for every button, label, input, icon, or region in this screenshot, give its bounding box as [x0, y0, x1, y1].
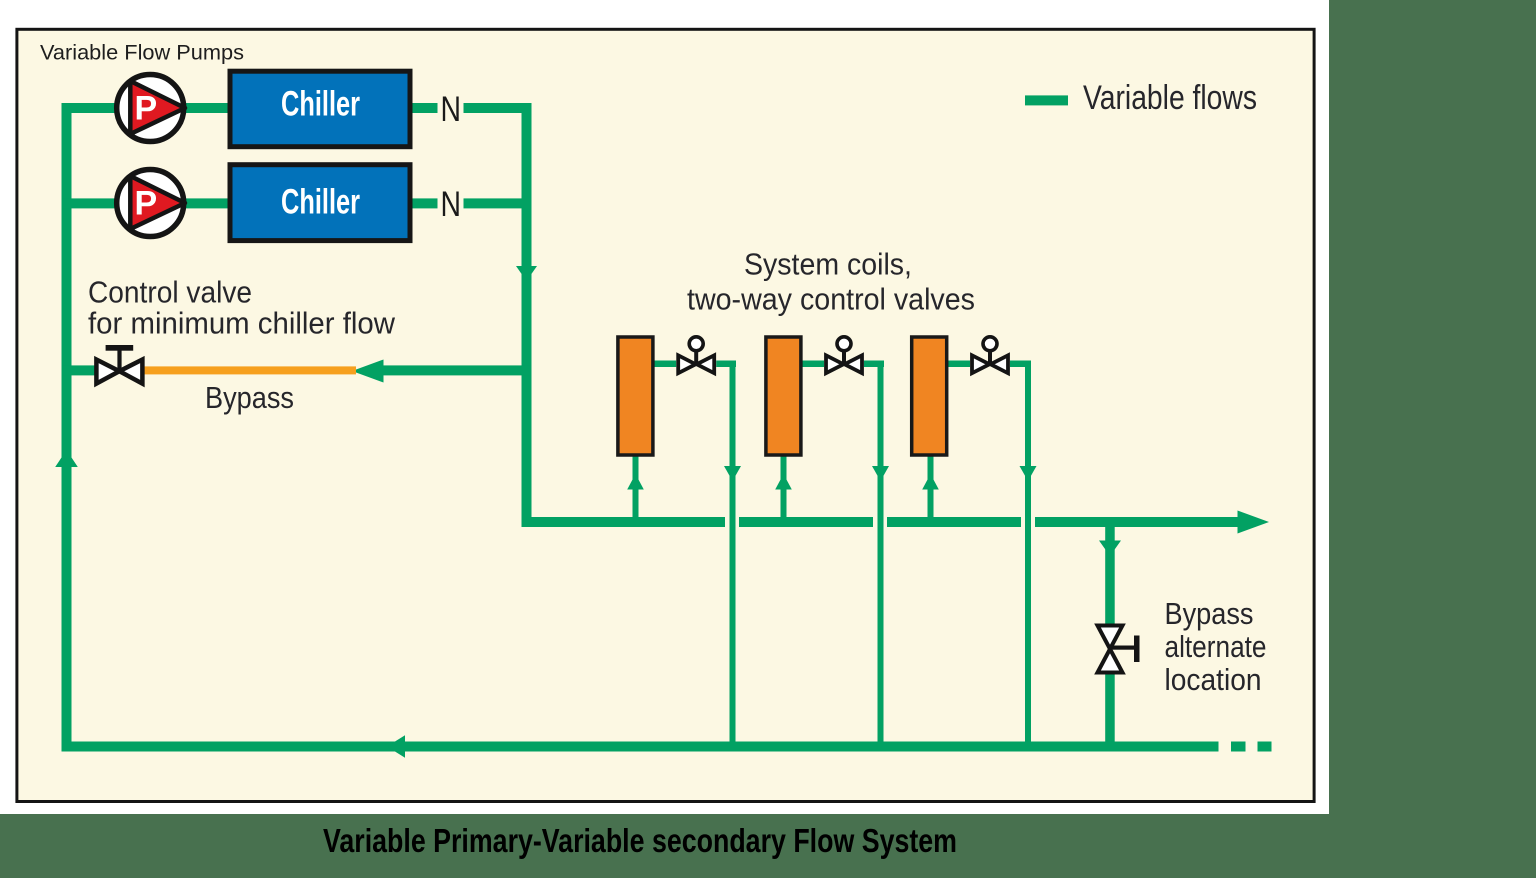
- diagram panel: [17, 29, 1314, 801]
- arrow: left riser up: [55, 450, 78, 467]
- coil 1: [618, 337, 653, 455]
- chiller 1: [230, 71, 410, 147]
- wire: return dash 1: [1231, 742, 1246, 752]
- wire: row2 after check valve: [462, 198, 532, 208]
- wire: supply manifold seg1: [522, 517, 726, 527]
- svg-text:Variable Primary-Variable seco: Variable Primary-Variable secondary Flow…: [323, 822, 957, 859]
- check valve N row 2: [438, 185, 464, 224]
- label: Bypass alternate location: [1165, 596, 1267, 697]
- wire: row1 chiller outlet: [411, 103, 439, 113]
- chiller 2: [230, 165, 410, 241]
- arrow: coil3 stub up: [922, 474, 939, 490]
- two-way valve 2: [824, 337, 864, 376]
- arrow: coil1 stub up: [627, 474, 644, 490]
- arrow: drop1 down: [724, 466, 741, 481]
- arrow: return left: [387, 735, 405, 758]
- arrow: drop2 down: [872, 466, 889, 481]
- svg-text:System coils,: System coils,: [744, 247, 912, 282]
- wire: row1 pump supply: [62, 103, 233, 113]
- svg-text:Bypass: Bypass: [205, 380, 294, 415]
- svg-text:Control valve: Control valve: [88, 274, 252, 309]
- wire: row2 pump supply: [62, 198, 233, 208]
- wire: coil1 stub: [633, 455, 639, 522]
- bypass orange pipe: [144, 366, 356, 374]
- wire: return drop 2: [878, 361, 884, 747]
- bottom band: [0, 814, 1536, 878]
- wire: left riser: [62, 103, 72, 752]
- wire: coil3 valve pipe: [946, 361, 1031, 368]
- svg-text:P: P: [134, 184, 157, 222]
- wire: bypass left green: [62, 365, 96, 375]
- wire: supply riser: [522, 103, 532, 527]
- svg-text:Variable flows: Variable flows: [1083, 79, 1257, 117]
- svg-text:N: N: [441, 185, 462, 224]
- arrow: bypass branch down: [1099, 541, 1121, 557]
- wire: supply manifold seg3: [887, 517, 1021, 527]
- svg-text:N: N: [441, 90, 462, 129]
- wire: coil3 stub: [928, 455, 934, 522]
- wire: supply manifold seg4: [1035, 517, 1243, 527]
- wire: coil1 valve pipe: [653, 361, 736, 368]
- arrow: coil2 stub up: [775, 474, 792, 490]
- svg-text:Variable Flow Pumps: Variable Flow Pumps: [40, 41, 244, 65]
- wire: supply manifold seg2: [739, 517, 873, 527]
- arrow: bypass left: [352, 360, 384, 383]
- legend dash: [1025, 95, 1068, 105]
- pump P1: [117, 75, 185, 142]
- coil 3: [912, 337, 947, 455]
- two-way valve 1: [676, 337, 716, 376]
- svg-text:Bypass: Bypass: [1165, 596, 1254, 631]
- pump P2: [117, 170, 185, 237]
- wire: return drop 1: [730, 361, 736, 747]
- wire: coil2 stub: [781, 455, 787, 522]
- arrow: supply manifold right: [1238, 511, 1270, 534]
- svg-text:Chiller: Chiller: [281, 181, 360, 221]
- arrow: drop3 down: [1020, 466, 1037, 481]
- arrow: supply riser down: [516, 266, 537, 281]
- svg-text:Chiller: Chiller: [281, 84, 360, 124]
- wire: bypass right green: [382, 365, 532, 375]
- wire: row1 after check valve: [462, 103, 532, 113]
- svg-text:P: P: [134, 89, 157, 127]
- right side band: [1329, 0, 1536, 878]
- bypass alternate valve: [1096, 625, 1140, 673]
- wire: row2 chiller outlet: [411, 198, 439, 208]
- wire: return main: [62, 742, 1219, 752]
- coil 2: [766, 337, 801, 455]
- check valve N row 1: [438, 90, 464, 129]
- wire: coil2 valve pipe: [802, 361, 884, 368]
- wire: bypass branch: [1105, 527, 1115, 747]
- svg-text:alternate: alternate: [1165, 629, 1267, 664]
- svg-text:two-way control valves: two-way control valves: [687, 281, 975, 316]
- svg-text:location: location: [1165, 662, 1262, 697]
- svg-text:for minimum chiller flow: for minimum chiller flow: [88, 306, 396, 341]
- wire: return drop 3: [1025, 361, 1031, 747]
- control valve (minimum chiller flow): [96, 345, 142, 384]
- two-way valve 3: [970, 337, 1010, 376]
- wire: return dash 2: [1258, 742, 1272, 752]
